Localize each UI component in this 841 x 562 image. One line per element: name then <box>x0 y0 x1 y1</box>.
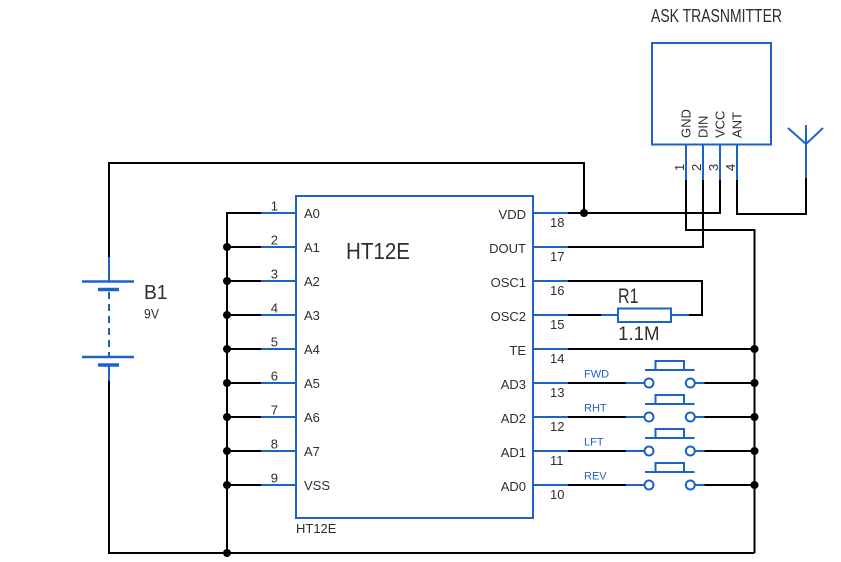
IC pin 5 (A4) <box>261 335 320 358</box>
IC pin 7 (A6) <box>261 403 320 426</box>
svg-text:3: 3 <box>271 267 278 282</box>
svg-text:1.1M: 1.1M <box>618 324 660 345</box>
svg-text:ANT: ANT <box>730 112 745 138</box>
junction: ground bus at TE <box>751 345 759 353</box>
svg-text:18: 18 <box>550 215 564 230</box>
battery B1 9V <box>82 257 134 381</box>
svg-text:A1: A1 <box>304 240 320 255</box>
svg-text:13: 13 <box>550 385 564 400</box>
wire: switch to ground bus (AD0) <box>705 484 755 486</box>
junction: bus at ground rail <box>223 549 231 557</box>
svg-text:A7: A7 <box>304 444 320 459</box>
wire: VDD pin 18 to transmitter VCC <box>568 179 720 213</box>
svg-text:HT12E: HT12E <box>296 521 337 536</box>
transmitter pin 1 (GND) <box>672 109 694 180</box>
IC pin 4 (A3) <box>261 301 320 324</box>
wire: AD2 pin to switch <box>568 416 626 418</box>
svg-text:HT12E: HT12E <box>346 238 410 264</box>
svg-text:2: 2 <box>689 164 704 171</box>
svg-text:A5: A5 <box>304 376 320 391</box>
resistor R1 <box>601 309 689 323</box>
svg-text:DIN: DIN <box>696 116 711 138</box>
svg-text:VDD: VDD <box>499 207 526 222</box>
junction: bus at A7 <box>223 447 231 455</box>
wire: bus tap to A5 <box>227 382 261 384</box>
svg-text:DOUT: DOUT <box>489 241 526 256</box>
ASK transmitter module body <box>652 43 771 145</box>
wire: AD0 pin to switch <box>568 484 626 486</box>
svg-text:RHT: RHT <box>584 403 607 415</box>
svg-text:OSC1: OSC1 <box>491 275 526 290</box>
junction: ground bus at AD1 switch <box>751 447 759 455</box>
svg-text:9: 9 <box>271 471 278 486</box>
svg-text:4: 4 <box>271 301 278 316</box>
junction: bus at A5 <box>223 379 231 387</box>
IC pin 12 (AD2) <box>501 411 568 434</box>
svg-text:OSC2: OSC2 <box>491 309 526 324</box>
svg-text:5: 5 <box>271 335 278 350</box>
svg-text:11: 11 <box>550 453 564 468</box>
wire: transmitter ANT to antenna <box>737 178 806 214</box>
IC pin 15 (OSC2) <box>491 309 568 332</box>
svg-text:1: 1 <box>672 164 687 171</box>
svg-text:1: 1 <box>271 199 278 214</box>
junction: bus at A6 <box>223 413 231 421</box>
IC pin 14 (TE) <box>509 343 568 366</box>
wire: left address bus (A0-A7, VSS common) <box>227 213 261 553</box>
svg-text:A6: A6 <box>304 410 320 425</box>
wire: AD3 pin to switch <box>568 382 626 384</box>
wire: bus tap to A3 <box>227 314 261 316</box>
svg-text:7: 7 <box>271 403 278 418</box>
svg-text:B1: B1 <box>144 282 168 304</box>
svg-text:AD2: AD2 <box>501 411 526 426</box>
IC pin 13 (AD3) <box>501 377 568 400</box>
wire: battery positive to VDD node <box>109 163 584 259</box>
svg-text:12: 12 <box>550 419 564 434</box>
antenna AE1 <box>788 125 823 178</box>
svg-text:VCC: VCC <box>713 111 728 138</box>
svg-text:AD3: AD3 <box>501 377 526 392</box>
push button SW4 (REV) <box>626 463 705 490</box>
IC pin 3 (A2) <box>261 267 320 290</box>
push button SW1 (FWD) <box>626 361 705 388</box>
wire: OSC1 pin 16 to resistor right lead <box>568 281 702 315</box>
wire: DOUT pin 17 to transmitter DIN <box>568 179 703 247</box>
IC pin 2 (A1) <box>261 233 320 256</box>
wire: right ground bus <box>754 229 756 553</box>
svg-text:A3: A3 <box>304 308 320 323</box>
svg-text:10: 10 <box>550 487 564 502</box>
IC pin 17 (DOUT) <box>489 241 568 264</box>
svg-text:A0: A0 <box>304 206 320 221</box>
push button SW2 (RHT) <box>626 395 705 422</box>
wire: AD1 pin to switch <box>568 450 626 452</box>
svg-text:6: 6 <box>271 369 278 384</box>
IC pin 1 (A0) <box>261 199 320 222</box>
wire: bus tap to A7 <box>227 450 261 452</box>
junction: VDD node <box>580 209 588 217</box>
wire: OSC2 pin 15 to resistor left lead <box>568 314 602 316</box>
IC pin 6 (A5) <box>261 369 320 392</box>
wire: bus tap to A2 <box>227 280 261 282</box>
wire: bus tap to VSS <box>227 484 261 486</box>
svg-text:R1: R1 <box>618 284 639 308</box>
IC pin 10 (AD0) <box>501 479 568 502</box>
svg-text:8: 8 <box>271 437 278 452</box>
junction: bus at A2 <box>223 277 231 285</box>
wire: bus tap to A4 <box>227 348 261 350</box>
wire: bus tap to A1 <box>227 246 261 248</box>
wire: switch to ground bus (AD1) <box>705 450 755 452</box>
svg-text:GND: GND <box>679 109 694 138</box>
svg-text:14: 14 <box>550 351 564 366</box>
wire: bottom ground rail <box>109 380 755 553</box>
svg-text:TE: TE <box>509 343 526 358</box>
svg-text:REV: REV <box>584 471 607 483</box>
transmitter pin 2 (DIN) <box>689 116 711 180</box>
svg-text:FWD: FWD <box>584 369 609 381</box>
wire: bus tap to A6 <box>227 416 261 418</box>
IC pin 11 (AD1) <box>501 445 568 468</box>
svg-text:A4: A4 <box>304 342 320 357</box>
junction: ground bus at AD3 switch <box>751 379 759 387</box>
svg-text:AD1: AD1 <box>501 445 526 460</box>
IC pin 9 (VSS) <box>261 471 330 494</box>
wire: TE pin 14 to ground bus <box>568 348 755 350</box>
IC pin 8 (A7) <box>261 437 320 460</box>
svg-text:17: 17 <box>550 249 564 264</box>
svg-text:VSS: VSS <box>304 478 330 493</box>
transmitter pin 3 (VCC) <box>706 111 728 180</box>
push button SW3 (LFT) <box>626 429 705 456</box>
svg-text:LFT: LFT <box>584 437 604 449</box>
IC U1 HT12E body <box>296 196 533 518</box>
junction: bus at A4 <box>223 345 231 353</box>
svg-text:15: 15 <box>550 317 564 332</box>
svg-text:AD0: AD0 <box>501 479 526 494</box>
junction: ground bus at AD2 switch <box>751 413 759 421</box>
junction: bus at A3 <box>223 311 231 319</box>
transmitter pin 4 (ANT) <box>723 112 745 180</box>
svg-text:4: 4 <box>723 164 738 171</box>
wire: switch to ground bus (AD3) <box>705 382 755 384</box>
wire: switch to ground bus (AD2) <box>705 416 755 418</box>
svg-text:9V: 9V <box>144 306 160 322</box>
svg-text:A2: A2 <box>304 274 320 289</box>
junction: bus at A1 <box>223 243 231 251</box>
svg-text:16: 16 <box>550 283 564 298</box>
IC pin 16 (OSC1) <box>491 275 568 298</box>
IC pin 18 (VDD) <box>499 207 568 230</box>
svg-text:2: 2 <box>271 233 278 248</box>
junction: bus at VSS <box>223 481 231 489</box>
svg-text:ASK TRASNMITTER: ASK TRASNMITTER <box>651 6 782 26</box>
wire: transmitter GND to ground bus <box>686 179 755 230</box>
junction: ground bus at AD0 switch <box>751 481 759 489</box>
svg-text:3: 3 <box>706 164 721 171</box>
